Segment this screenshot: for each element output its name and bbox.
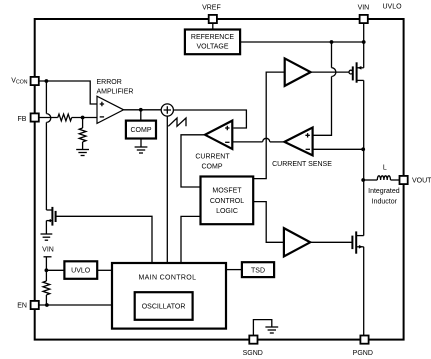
wire error amp output to summing node [124, 109, 162, 111]
svg-text:Inductor: Inductor [372, 199, 398, 206]
wire junction down to COMP block [140, 110, 142, 121]
wire summing node down to main control [166, 116, 168, 263]
wire mosfet control logic to high-side gate driver [253, 72, 284, 179]
svg-text:AMPLIFIER: AMPLIFIER [97, 89, 134, 96]
svg-text:MOSFET: MOSFET [212, 188, 242, 195]
wire VCON branch down to left MOSFET drain (with hop over FB wire) [46, 81, 50, 210]
ground (COMP) [135, 147, 148, 153]
wire VIN pin down to PMOS source [363, 21, 365, 68]
wire COMP to ground [140, 139, 142, 148]
node junction FB divider [81, 116, 85, 120]
svg-text:REFERENCE: REFERENCE [191, 34, 235, 41]
wire current sense output to current comp inverting input (hop over driver rail) [232, 138, 284, 142]
op-amp error amplifier [97, 96, 124, 123]
block reference voltage [185, 30, 240, 55]
VIN node terminal tick [44, 256, 52, 258]
wire low-side driver to NMOS gate [310, 241, 352, 243]
svg-text:SGND: SGND [243, 350, 263, 357]
svg-text:Integrated: Integrated [368, 188, 400, 195]
comparator current comp [205, 121, 232, 149]
wire current comp output to mosfet control logic [181, 135, 205, 187]
svg-text:CONTROL: CONTROL [210, 198, 244, 205]
pin FB [31, 113, 39, 121]
wire EN pin to main control [39, 304, 112, 306]
wire current sense - input to switch node [313, 148, 364, 150]
pin PGND [360, 336, 368, 344]
comparator current sense [284, 128, 312, 156]
svg-text:OSCILLATOR: OSCILLATOR [142, 304, 186, 311]
IC package outline border [35, 19, 404, 340]
wire main control to TSD [226, 269, 242, 271]
svg-text:L: L [383, 165, 387, 172]
svg-text:VIN: VIN [42, 247, 54, 254]
block main control [112, 263, 226, 329]
svg-text:VCON: VCON [11, 78, 27, 86]
block UVLO [64, 261, 97, 279]
wire SGND pin up to signal ground symbol [253, 320, 271, 337]
svg-text:MAIN CONTROL: MAIN CONTROL [138, 275, 196, 282]
svg-text:FB: FB [18, 116, 27, 123]
block TSD [242, 262, 274, 277]
buffer high-side gate driver [285, 58, 311, 86]
wire high-side driver to PMOS gate (hop over current sense rail) [311, 71, 349, 73]
inductor L integrated [377, 176, 390, 180]
svg-text:LOGIC: LOGIC [216, 208, 238, 215]
node junction ref line at VIN rail [362, 40, 366, 44]
pin VIN [360, 15, 368, 23]
label current comp [195, 153, 230, 170]
wire FB to summing resistor [39, 117, 58, 119]
svg-text:VOUT: VOUT [412, 178, 431, 185]
node junction VCON branch [45, 79, 49, 83]
transistor Q1 PMOS high-side [349, 62, 364, 82]
buffer low-side gate driver [284, 228, 310, 256]
pin VCON [31, 77, 39, 85]
svg-text:VIN: VIN [358, 4, 370, 11]
node junction VIN/UVLO [45, 268, 49, 272]
svg-text:COMP: COMP [202, 164, 223, 171]
node junction on ref line at current sense rail [330, 40, 334, 44]
svg-text:VOLTAGE: VOLTAGE [196, 44, 228, 51]
svg-text:UVLO: UVLO [382, 4, 402, 11]
ground (Q3 source) [41, 234, 53, 240]
wire junction to UVLO block [46, 269, 64, 271]
wire R2 to ground [82, 142, 84, 150]
transistor Q3 NMOS (VCON clamp) [46, 207, 55, 234]
block MOSFET control logic [201, 177, 254, 225]
wire switch node to inductor [363, 179, 377, 181]
block COMP [126, 121, 156, 139]
resistor R3 (EN pulldown) [43, 281, 50, 295]
resistor R2 (FB to ground) [79, 128, 86, 142]
svg-text:COMP: COMP [131, 127, 152, 134]
node junction EN [45, 303, 49, 307]
wire mosfet control logic to low-side gate driver [253, 202, 284, 243]
node junction switch node / inductor [361, 178, 365, 182]
svg-text:EN: EN [17, 302, 27, 309]
wire switch node vertical [363, 80, 365, 235]
transistor Q2 NMOS low-side [352, 231, 363, 253]
wire NMOS source down to PGND pin [363, 247, 365, 337]
svg-text:CURRENT SENSE: CURRENT SENSE [272, 161, 332, 168]
label integrated inductor [368, 188, 400, 205]
reference voltage output wire to VIN rail [240, 41, 364, 43]
wire VCON to error amplifier input [39, 81, 97, 104]
wire Q3 gate to main control [56, 216, 152, 263]
wire inductor to VOUT pin [391, 179, 400, 181]
pin EN [31, 301, 39, 309]
block oscillator [135, 292, 193, 320]
ground (FB divider) [76, 150, 89, 156]
summing node circle [161, 104, 173, 116]
resistor R1 (FB series) [58, 114, 72, 121]
wire R3 to EN junction [45, 295, 47, 305]
node junction error amp output [139, 108, 143, 112]
wire VREF pin to reference voltage box [212, 21, 214, 30]
svg-text:PGND: PGND [353, 350, 373, 357]
svg-text:ERROR: ERROR [97, 79, 122, 86]
pin VOUT [400, 176, 408, 184]
svg-text:VREF: VREF [202, 4, 221, 11]
svg-text:UVLO: UVLO [71, 268, 91, 275]
wire FB junction down to resistor R2 [82, 118, 84, 129]
label error amplifier [97, 79, 134, 96]
pin VREF [209, 15, 217, 23]
sawtooth ramp symbol [168, 118, 186, 126]
wire resistor to error amp inverting input [72, 117, 97, 119]
ground (SGND) [265, 327, 278, 333]
wire mosfet control logic lower left port down to main control [181, 216, 201, 263]
svg-text:CURRENT: CURRENT [195, 153, 230, 160]
wire UVLO junction down to resistor R3 [45, 270, 47, 281]
node junction switch node / current sense [361, 147, 365, 151]
wire UVLO to main control [97, 269, 112, 271]
wire current sense + input up to VIN rail (hop over gate wire) [313, 42, 336, 135]
wire summing node to current comp non-inverting input [173, 110, 246, 128]
svg-text:TSD: TSD [251, 267, 265, 274]
pin SGND [249, 336, 257, 344]
wire VIN node down to UVLO junction [45, 257, 47, 271]
